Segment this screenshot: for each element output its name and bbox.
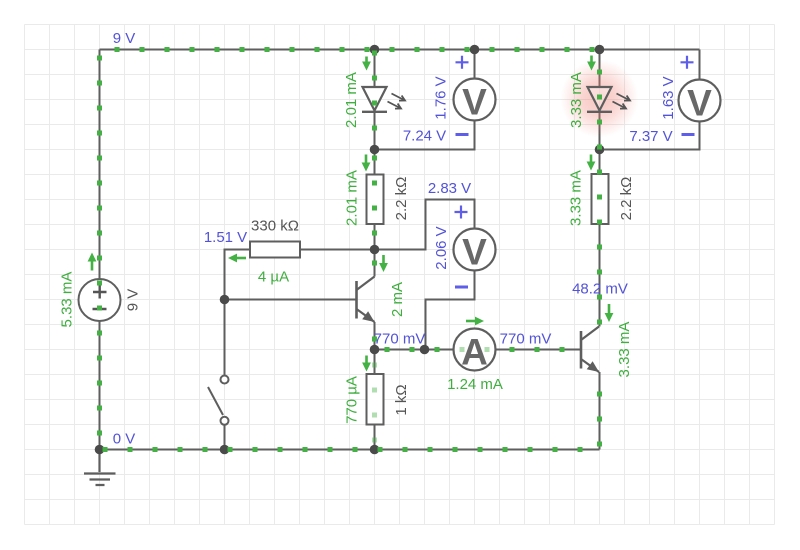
svg-text:1.63 V: 1.63 V	[660, 76, 677, 119]
svg-text:A: A	[461, 331, 488, 372]
svg-text:V: V	[687, 82, 712, 123]
svg-text:V: V	[462, 81, 487, 122]
svg-text:V: V	[462, 231, 487, 272]
svg-text:3.33 mA: 3.33 mA	[616, 322, 633, 378]
svg-text:2.01 mA: 2.01 mA	[343, 170, 360, 226]
svg-text:2.83 V: 2.83 V	[428, 180, 471, 197]
svg-text:48.2 mV: 48.2 mV	[572, 280, 628, 297]
svg-text:7.24 V: 7.24 V	[403, 127, 446, 144]
svg-text:1.24 mA: 1.24 mA	[447, 376, 503, 393]
svg-text:770 µA: 770 µA	[343, 376, 360, 424]
svg-text:5.33 mA: 5.33 mA	[58, 272, 75, 328]
svg-text:2.06 V: 2.06 V	[433, 226, 450, 269]
svg-text:9 V: 9 V	[124, 289, 141, 312]
svg-text:3.33 mA: 3.33 mA	[567, 170, 584, 226]
svg-text:3.33 mA: 3.33 mA	[568, 72, 585, 128]
svg-text:2.01 mA: 2.01 mA	[343, 72, 360, 128]
svg-text:1.51 V: 1.51 V	[204, 229, 247, 246]
svg-text:770 mV: 770 mV	[374, 330, 426, 347]
svg-text:7.37 V: 7.37 V	[629, 128, 672, 145]
svg-text:9 V: 9 V	[113, 30, 136, 47]
svg-text:330 kΩ: 330 kΩ	[251, 217, 299, 234]
svg-text:2 mA: 2 mA	[389, 282, 406, 317]
svg-text:2.2 kΩ: 2.2 kΩ	[393, 177, 410, 221]
svg-text:2.2 kΩ: 2.2 kΩ	[618, 177, 635, 221]
svg-text:1 kΩ: 1 kΩ	[393, 384, 410, 415]
svg-text:1.76 V: 1.76 V	[432, 76, 449, 119]
svg-text:4 µA: 4 µA	[258, 268, 289, 285]
svg-text:0 V: 0 V	[113, 430, 136, 447]
svg-text:770 mV: 770 mV	[500, 330, 552, 347]
